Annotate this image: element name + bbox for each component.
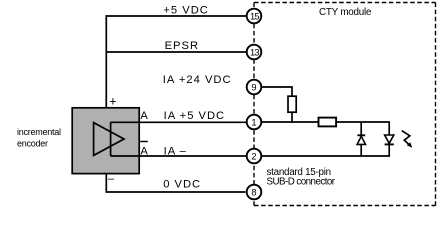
LED light emission arrow — [402, 131, 413, 148]
label incremental encoder — [17, 127, 61, 148]
svg-text:A: A — [140, 146, 148, 158]
svg-text:IA +24 VDC: IA +24 VDC — [163, 74, 232, 86]
wire branch for LED D2 — [388, 122, 390, 157]
wire from resistor R2 to diode branches — [336, 121, 390, 123]
wire +5 VDC to pin 15 — [106, 15, 247, 17]
resistor R1 (vertical pull-up) — [288, 96, 296, 112]
label standard 15-pin SUB-D connector — [267, 167, 336, 188]
svg-text:CTY module: CTY module — [319, 7, 372, 18]
svg-text:SUB-D connector: SUB-D connector — [267, 177, 336, 188]
encoder box (incremental encoder body) — [72, 108, 139, 174]
wire EPSR to pin 13 — [106, 51, 247, 53]
pin 2 — [247, 149, 262, 164]
svg-text:IA –: IA – — [164, 146, 187, 158]
CTY module dashed enclosure right border — [435, 3, 437, 206]
svg-text:encoder: encoder — [17, 138, 48, 148]
label A-bar with overline — [140, 142, 148, 158]
pin 15 — [247, 9, 262, 24]
resistor R2 (series, horizontal) — [319, 118, 337, 127]
svg-text:2: 2 — [251, 151, 256, 161]
wire -V vertical from encoder bottom down to 0 VDC rail — [105, 174, 107, 192]
pin 8 — [247, 185, 262, 200]
CTY module dashed enclosure top border — [254, 2, 436, 4]
wire A output from encoder to pin 1 — [111, 121, 247, 123]
wire from pin 2 to diode branches bottom rail — [262, 155, 390, 157]
svg-text:IA +5 VDC: IA +5 VDC — [164, 110, 226, 122]
svg-text:15: 15 — [250, 11, 259, 21]
SUB-D connector dashed line through pins — [253, 3, 255, 206]
diode D1 (protection, cathode up) — [357, 135, 365, 144]
svg-text:incremental: incremental — [17, 127, 61, 137]
svg-text:EPSR: EPSR — [165, 40, 199, 52]
svg-text:–: – — [108, 173, 115, 185]
wire 0 VDC to pin 8 — [106, 191, 246, 193]
encoder output stage rectangle — [110, 122, 112, 156]
svg-text:13: 13 — [250, 47, 259, 57]
CTY module dashed enclosure bottom border — [254, 205, 436, 207]
encoder amplifier triangle — [94, 123, 124, 156]
wire +V vertical from +5 VDC rail down to encoder top — [105, 15, 107, 108]
wire from pin 9 right then down to pull-up resistor — [262, 87, 293, 96]
wire from pin 1 to resistor R2 — [262, 121, 319, 123]
svg-text:0 VDC: 0 VDC — [163, 178, 201, 190]
svg-text:+5 VDC: +5 VDC — [163, 5, 208, 17]
pin 13 — [247, 45, 262, 60]
wire A-bar output from encoder to pin 2 — [111, 155, 247, 157]
pin 9 — [247, 80, 262, 95]
LED D2 (opto-coupler emitter, cathode down) — [385, 135, 394, 144]
pin 1 — [247, 115, 262, 130]
svg-text:+: + — [109, 95, 116, 109]
wire branch for protection diode D1 — [360, 122, 362, 157]
wire from resistor R1 down to node on IA +5 VDC line — [291, 112, 293, 123]
svg-text:A: A — [140, 110, 148, 122]
svg-text:1: 1 — [251, 117, 256, 127]
svg-text:9: 9 — [251, 82, 256, 92]
svg-text:8: 8 — [251, 187, 256, 197]
